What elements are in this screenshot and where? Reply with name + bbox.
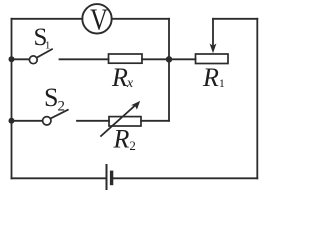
svg-text:V: V: [90, 2, 108, 37]
svg-text:R1: R1: [202, 63, 225, 92]
svg-text:Rx: Rx: [111, 63, 134, 92]
svg-text:R2: R2: [113, 124, 136, 153]
svg-text:S1: S1: [34, 24, 51, 52]
svg-text:S2: S2: [44, 83, 65, 115]
